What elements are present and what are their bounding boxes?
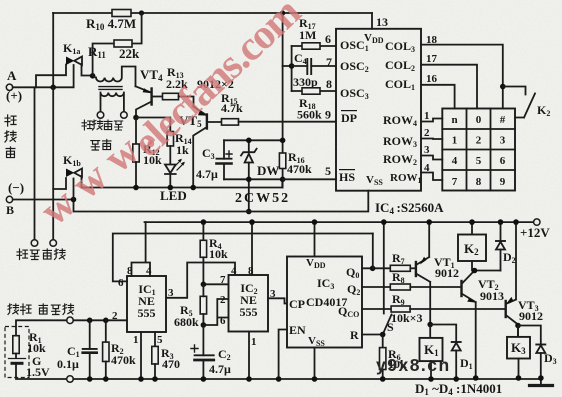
- node pin8 rail: [249, 219, 255, 225]
- node A junction: [50, 85, 56, 91]
- node R4 R5: [201, 282, 207, 288]
- resistor R10: [112, 10, 131, 17]
- battery G: [9, 359, 67, 380]
- terminal +12V: [534, 219, 540, 225]
- node K3 top: [515, 323, 521, 329]
- pin labels 18 17 16: [426, 34, 438, 85]
- resistor R12: [133, 118, 139, 188]
- wire VSS drop and line to K1b: [74, 191, 369, 212]
- node K2 rail: [469, 219, 475, 225]
- wire zener block bottom: [224, 178, 283, 180]
- resistor R15: [222, 119, 337, 125]
- transistor VT3: [506, 222, 518, 337]
- transistor VT2: [462, 271, 476, 378]
- wire IC2 pin3 to CP: [268, 298, 287, 303]
- resistor R1: [13, 320, 67, 358]
- keypad matrix: [442, 109, 515, 191]
- wire IC2 pin7: [203, 283, 228, 285]
- wire phone drop 1: [34, 87, 36, 239]
- label shu-chu (output): [91, 140, 111, 151]
- wire pin5 HS: [283, 178, 336, 180]
- transistor VT1: [416, 222, 430, 324]
- wire IC3 EN ground: [279, 330, 287, 380]
- wire osc branch: [283, 46, 292, 91]
- IC3 box: [287, 257, 362, 348]
- wire phone drop 2: [52, 87, 54, 239]
- wire +12V rail: [145, 221, 534, 223]
- terminal phone right: [50, 240, 57, 247]
- node C1 top: [87, 318, 93, 324]
- wire zener block top: [224, 139, 283, 141]
- wire A line: [13, 65, 74, 87]
- capacitor C1: [83, 320, 97, 379]
- terminal B: [6, 196, 12, 202]
- node R4 top: [201, 219, 207, 225]
- diode D1: [430, 325, 461, 380]
- wire COL1 pin16: [421, 85, 455, 109]
- node S: [380, 332, 386, 338]
- wire K1a lower branch: [36, 65, 66, 88]
- node DW vss: [246, 209, 252, 215]
- label jie-xian-qi vertical (terminal block): [5, 115, 16, 158]
- wire ground rail: [73, 378, 541, 380]
- zener DW: [241, 140, 257, 211]
- resistor R6: [380, 335, 386, 380]
- capacitor C4: [292, 59, 336, 74]
- node B junction: [71, 197, 77, 203]
- resistor R13: [163, 93, 194, 106]
- node R2 top: [103, 318, 109, 324]
- resistor R2: [103, 320, 109, 379]
- IC2 labels: [240, 281, 258, 319]
- switch K2 hook: [503, 87, 535, 118]
- node junction R10 right: [139, 10, 144, 15]
- wire pin13: [371, 13, 373, 29]
- node VT3 emitter rail: [513, 219, 519, 225]
- wire LED bottom rail: [82, 179, 283, 187]
- resistor R7: [390, 265, 415, 271]
- node K2 bottom: [472, 268, 478, 274]
- node osc branch: [289, 63, 295, 69]
- wire IC1 pins 8 4 bracket: [132, 222, 151, 276]
- wire ROW3: [421, 138, 442, 141]
- node Q0: [370, 266, 376, 272]
- diode D3: [518, 326, 545, 378]
- node R5 bottom: [201, 322, 207, 328]
- terminal A: [6, 84, 12, 90]
- resistor R14: [136, 118, 174, 165]
- terminal phone left: [31, 240, 38, 247]
- wire COL2 pin17: [421, 65, 477, 109]
- wire IC2 pin1: [248, 332, 250, 380]
- node VT4 collector junction: [133, 115, 139, 121]
- resistor R8: [390, 284, 460, 290]
- relay K2: [458, 222, 501, 270]
- wire ROW4: [421, 119, 442, 122]
- capacitor C3: [217, 140, 233, 179]
- resistor R9: [391, 306, 505, 312]
- resistor R17: [292, 43, 336, 49]
- node K1 top: [427, 322, 433, 328]
- wire IC2 pins 2 6: [203, 299, 228, 325]
- terminal alarm line bottom: [67, 376, 74, 383]
- switch S: [383, 222, 392, 334]
- ground rail nodes: [87, 375, 544, 382]
- IC2 box: [229, 275, 269, 332]
- wire ROW1: [421, 173, 442, 181]
- resistor R5: [200, 284, 206, 325]
- IC4 S2560A box: [336, 29, 421, 191]
- IC1 box: [127, 276, 166, 332]
- node VDD rail: [312, 219, 318, 225]
- wire B line: [13, 199, 74, 201]
- keypad digits: [451, 114, 505, 188]
- wire A riser: [52, 13, 54, 87]
- wire IC1 pin2 line: [73, 319, 127, 321]
- terminal speaker out left: [97, 112, 104, 119]
- IC4 labels left: [339, 32, 384, 187]
- switch K1a: [66, 57, 93, 76]
- resistor R18: [292, 88, 336, 94]
- wire COL3 pin18: [421, 45, 503, 109]
- node junction top rail to zener rail: [280, 10, 285, 15]
- wire IC1 pin3 to IC2 pin4: [166, 263, 235, 298]
- ground symbol: [530, 379, 553, 386]
- node S rail: [381, 219, 387, 225]
- wire IC3 R to S: [362, 334, 383, 336]
- transistor VT4: [136, 86, 163, 117]
- wire Q0 R7: [362, 267, 390, 269]
- node DW top: [246, 138, 252, 144]
- resistor R11: [93, 13, 142, 76]
- wire top rail: [53, 12, 372, 14]
- node zener top: [280, 138, 286, 144]
- transformer core: [99, 87, 122, 90]
- red watermark www.elecfans.com: [32, 108, 172, 235]
- transformer T primary: [93, 67, 136, 87]
- switch K1b: [66, 169, 82, 188]
- relay K1: [420, 325, 443, 380]
- wire IC1 pin6: [113, 234, 373, 282]
- node VT5 collector bottom: [190, 185, 196, 191]
- resistor R16 on zener rail: [279, 13, 285, 188]
- wire pin6 drop: [372, 234, 374, 269]
- node K1a output: [90, 73, 96, 79]
- resistor R4: [200, 222, 206, 284]
- LED: [165, 159, 185, 188]
- diode D2: [496, 222, 505, 270]
- wire K1b pivot riser: [73, 179, 75, 200]
- capacitor C2: [191, 325, 214, 379]
- wire ROW2: [421, 156, 442, 160]
- node D2 rail: [498, 219, 504, 225]
- wire Q2 R8: [362, 286, 390, 288]
- label jie-lu-yin-ji (connect recorder): [82, 120, 123, 130]
- wire IC3 VDD: [314, 222, 316, 256]
- node LED bottom: [168, 185, 174, 191]
- label jie-dian-hua-ji (connect telephone): [17, 249, 65, 260]
- wire IC1 pin1: [140, 332, 142, 379]
- node COL3 K2 tap: [500, 84, 506, 90]
- relay K3: [507, 326, 530, 378]
- IC1 labels: [138, 282, 156, 320]
- battery box dashed: [5, 327, 29, 378]
- IC4 labels right: [383, 39, 422, 185]
- node VT1 emitter rail: [426, 219, 432, 225]
- node zener bottom / pin5: [280, 177, 286, 183]
- wire K1b left branch: [53, 178, 66, 189]
- transformer secondary: [101, 93, 124, 112]
- terminal speaker out right: [121, 112, 128, 119]
- IC3 labels: [289, 257, 360, 348]
- wire IC3 VSS ground: [314, 348, 316, 379]
- terminal alarm line top: [67, 317, 74, 324]
- resistor R3 with IC1 pin5: [152, 332, 158, 379]
- transistor VT5: [193, 107, 221, 188]
- pin labels 1-4: [424, 110, 430, 174]
- wire QCO R9: [362, 308, 391, 310]
- wire IC2 pin8: [251, 222, 253, 275]
- label fu-jian bao-jing-xian (accessory alarm line): [8, 304, 74, 315]
- node R12 bottom: [133, 185, 139, 191]
- node DW bottom: [246, 177, 252, 183]
